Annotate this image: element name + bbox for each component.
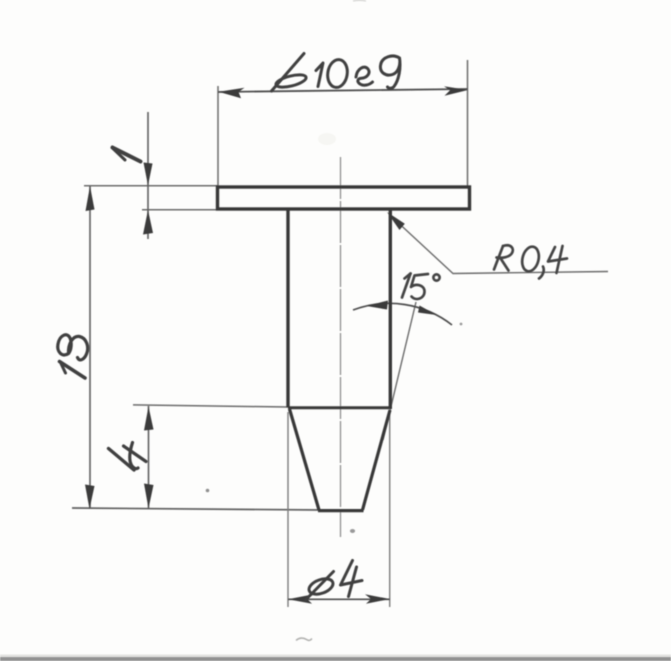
dimension line 4 xyxy=(144,406,154,509)
extension line left for dia4 xyxy=(287,412,289,607)
extension line top-left (head top, for dims 13 and 1) xyxy=(84,185,218,187)
label dia 4 (bottom) xyxy=(306,561,363,601)
faint dot left of taper xyxy=(206,489,210,493)
label 13 (rotated) xyxy=(58,335,88,378)
extension line bottom (for dims 13 and 4) xyxy=(72,508,322,510)
part outline: shank right edge xyxy=(389,210,392,410)
faint dot near arc xyxy=(460,323,463,326)
label dia 10 e 9 xyxy=(272,54,400,92)
centerline xyxy=(340,157,342,537)
part outline: taper transition line xyxy=(288,406,390,409)
part outline: shank left edge xyxy=(286,210,289,408)
part outline: taper left side xyxy=(290,409,320,510)
extension line head underside left (for dim 1) xyxy=(142,209,218,211)
leader R0,4 xyxy=(387,212,608,274)
angle 15 deg slant line xyxy=(383,302,416,440)
label 15 deg xyxy=(402,274,440,299)
angle 15 deg arc xyxy=(353,301,452,326)
extension line right for dia10e9 xyxy=(467,60,469,186)
dimension line dia10e9 xyxy=(218,86,468,98)
label 4 (rotated) xyxy=(109,443,147,471)
faint dot below tip xyxy=(350,529,355,533)
extension line left for dia10e9 xyxy=(217,86,219,186)
faint scan marks xyxy=(297,638,312,640)
part outline: flange head xyxy=(218,187,470,209)
extension line right for dia4 xyxy=(389,413,391,607)
dimension line 13 xyxy=(85,186,95,509)
scan edge band bottom xyxy=(0,655,671,661)
dimension line 1 xyxy=(143,112,153,239)
part outline: taper right side xyxy=(363,410,391,510)
label R 0,4 xyxy=(494,245,567,279)
faint top-center mark xyxy=(353,0,366,2)
dimension line dia4 xyxy=(288,594,390,604)
label 1 (head thickness, rotated) xyxy=(113,148,141,162)
part outline: tip flat xyxy=(318,509,364,512)
extension line taper start left (for dim 4) xyxy=(133,405,288,407)
faint smudge above flange xyxy=(318,133,336,145)
